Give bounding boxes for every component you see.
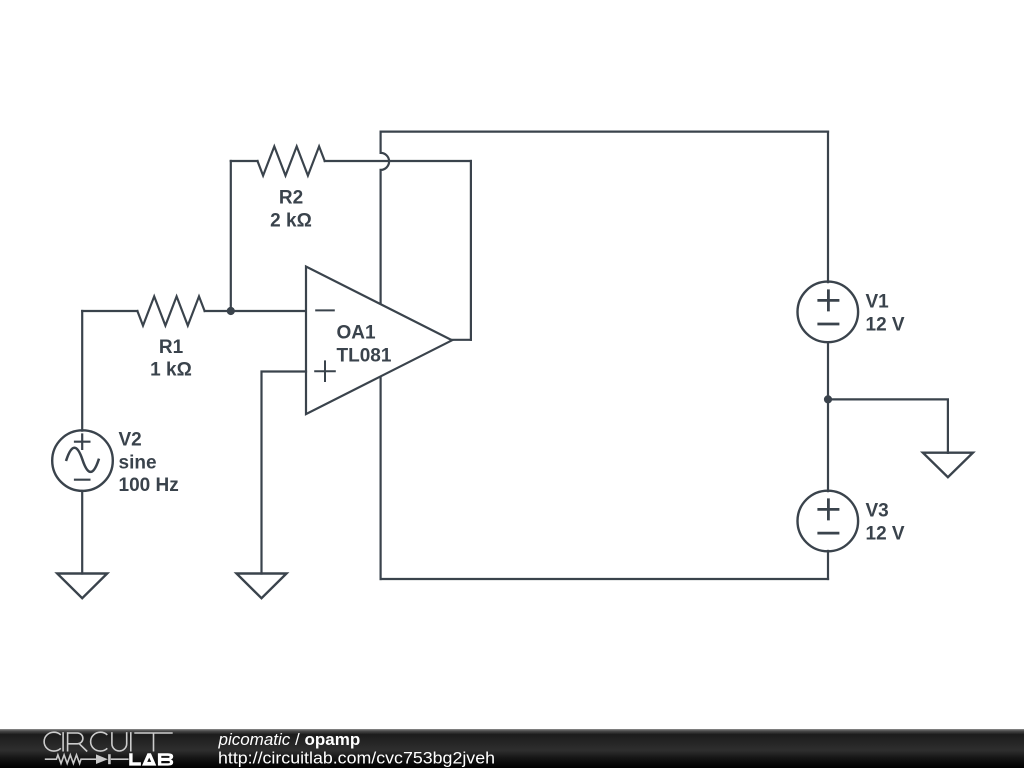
- svg-text:100 Hz: 100 Hz: [119, 475, 179, 496]
- voltage source V2 (sine): [52, 430, 113, 491]
- wire: op-amp V- pin: [380, 374, 382, 579]
- logo LAB: [129, 753, 173, 765]
- svg-text:V2: V2: [119, 430, 142, 451]
- op-amp OA1 body: [306, 267, 452, 415]
- voltage source V1: [798, 282, 859, 343]
- logo CIRCUIT wordmark: [44, 732, 173, 751]
- wire: midpoint to ground: [828, 399, 948, 453]
- ground: op-amp non-inverting input: [237, 574, 287, 599]
- svg-text:TL081: TL081: [337, 346, 392, 367]
- wire: feedback vertical: [230, 161, 232, 311]
- resistor R1: [137, 296, 204, 325]
- wire: V2 top lead: [81, 311, 83, 431]
- wire: V2 bottom lead: [81, 491, 83, 574]
- svg-text:R1: R1: [159, 337, 184, 358]
- wire: non-inverting input to ground: [262, 372, 307, 574]
- svg-text:OA1: OA1: [337, 322, 377, 343]
- wire: V3 top lead: [827, 399, 829, 491]
- wire: V1 to midpoint node: [827, 342, 829, 399]
- node: inverting input junction: [227, 307, 235, 315]
- node: supply midpoint junction: [824, 395, 832, 403]
- wire: V1 top lead: [827, 132, 829, 283]
- svg-text:sine: sine: [119, 452, 157, 473]
- wire: V3 bottom lead: [827, 551, 829, 579]
- footer bar: [0, 729, 1024, 768]
- svg-text:12 V: 12 V: [866, 523, 905, 544]
- wire: op-amp V+ pin with hop over feedback wire: [381, 132, 390, 306]
- svg-text:V1: V1: [866, 292, 890, 313]
- op-amp OA1 non-inverting input marker: [315, 361, 335, 381]
- wire: input to R1: [82, 310, 137, 312]
- svg-text:2 kΩ: 2 kΩ: [270, 211, 312, 232]
- svg-text:V3: V3: [866, 501, 889, 522]
- wire: bottom supply rail: [381, 578, 828, 580]
- resistor R2: [258, 146, 325, 175]
- svg-text:12 V: 12 V: [866, 315, 905, 336]
- ground: V2: [57, 574, 107, 599]
- logo resistor-diode symbol: [45, 754, 129, 764]
- op-amp OA1 inverting input marker: [316, 309, 334, 311]
- wire: R1 to op-amp inverting input: [205, 310, 306, 312]
- wire: R2 to output node: [325, 160, 471, 162]
- ground: supply midpoint: [923, 453, 973, 478]
- voltage source V3: [798, 491, 859, 552]
- svg-text:R2: R2: [279, 188, 303, 209]
- svg-text:http://circuitlab.com/cvc753bg: http://circuitlab.com/cvc753bg2jveh: [218, 748, 495, 767]
- wire: R2 left lead: [231, 160, 258, 162]
- svg-text:1 kΩ: 1 kΩ: [150, 360, 192, 381]
- svg-text:picomatic / opamp: picomatic / opamp: [218, 730, 361, 749]
- wire: top supply rail: [381, 131, 828, 133]
- wire: output stub to op-amp: [452, 339, 471, 341]
- wire: output feedback vertical: [470, 161, 472, 340]
